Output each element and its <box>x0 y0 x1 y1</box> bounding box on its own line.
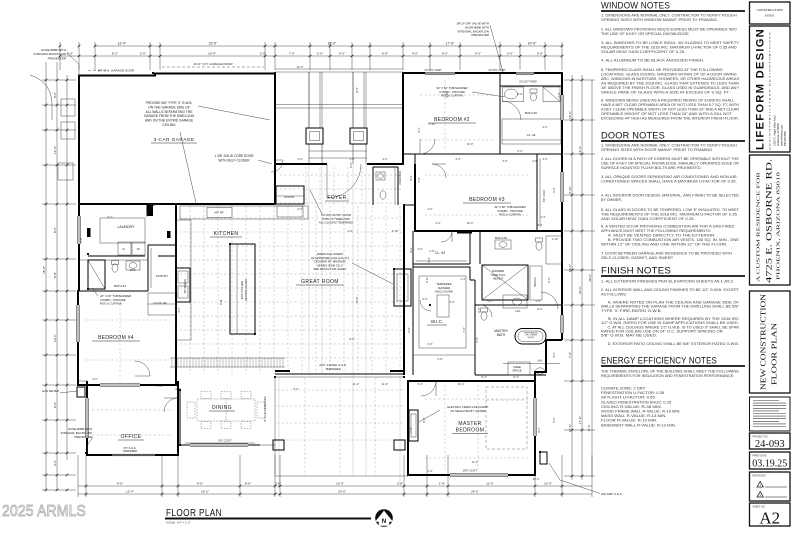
svg-text:2'0"x3'0" FIXED: 2'0"x3'0" FIXED <box>519 81 537 84</box>
window bedroom2 north <box>425 72 455 75</box>
svg-text:USE OF A KEY OR SPECIAL KNOWLE: USE OF A KEY OR SPECIAL KNOWLEDGE. MANUA… <box>601 162 739 166</box>
closet cl2 <box>502 119 561 144</box>
svg-text:4'-6": 4'-6" <box>542 157 547 161</box>
dining south windows <box>185 442 255 444</box>
svg-text:2'-0": 2'-0" <box>275 482 281 486</box>
svg-text:4'-0": 4'-0" <box>455 157 460 161</box>
svg-text:7'-0": 7'-0" <box>289 52 295 56</box>
svg-text:PREVENTER: PREVENTER <box>471 33 489 37</box>
svg-text:5'-6": 5'-6" <box>537 52 543 56</box>
dimension lines bottom rows <box>78 455 592 497</box>
svg-text:ENERGY EFFICIENCY NOTES: ENERGY EFFICIENCY NOTES <box>601 356 717 367</box>
svg-text:9'-2": 9'-2" <box>537 427 541 432</box>
svg-text:9'-0": 9'-0" <box>409 175 413 180</box>
svg-text:A2: A2 <box>759 509 780 528</box>
bath3 shower tiled <box>482 265 528 300</box>
svg-text:3'-0": 3'-0" <box>502 159 507 163</box>
svg-text:LIFEFORM DESIGN: LIFEFORM DESIGN <box>755 28 767 150</box>
interior dims scatter <box>92 65 558 481</box>
knee space counter <box>508 362 530 375</box>
svg-text:1. ALL EXTERIOR FINISHES PER E: 1. ALL EXTERIOR FINISHES PER ELEVATIONS … <box>601 280 734 284</box>
svg-text:3'-0": 3'-0" <box>507 52 513 56</box>
svg-text:BASEMENT WALL R-VALUE: R-13 MI: BASEMENT WALL R-VALUE: R-13 MIN. <box>601 423 676 427</box>
svg-text:2'-10": 2'-10" <box>429 122 436 126</box>
svg-text:1'-6": 1'-6" <box>439 482 445 486</box>
bath3 bench <box>530 266 542 300</box>
wall garage outline <box>79 74 275 205</box>
svg-text:22'-0": 22'-0" <box>209 42 218 46</box>
svg-text:9'-6": 9'-6" <box>442 52 448 56</box>
svg-text:NEW CONSTRUCTION: NEW CONSTRUCTION <box>759 293 768 390</box>
svg-text:11'-6": 11'-6" <box>472 460 479 464</box>
svg-text:CL. #3: CL. #3 <box>435 251 445 255</box>
svg-text:THE REQUIREMENTS OF THE 2018 I: THE REQUIREMENTS OF THE 2018 IRC. MAXIMU… <box>601 213 737 217</box>
titleblock sheet no box <box>750 503 791 526</box>
window bedroom4 south <box>100 384 140 387</box>
wall bedroom2 block <box>403 73 562 340</box>
svg-text:COATS: COATS <box>284 195 294 199</box>
bedroom2 ceiling dashes <box>420 94 495 96</box>
svg-text:3. ALL WINDOWS TO BE LOW-E INS: 3. ALL WINDOWS TO BE LOW-E INSUL. W/ GLA… <box>601 41 740 45</box>
svg-text:4'-4": 4'-4" <box>435 221 440 225</box>
svg-text:TEMPERED: TEMPERED <box>123 449 138 453</box>
svg-text:5'-0": 5'-0" <box>339 52 345 56</box>
wall left rooms west exterior <box>78 204 80 291</box>
ceiling grid dashed lines great room <box>180 206 403 476</box>
svg-text:8'-6": 8'-6" <box>245 482 251 486</box>
svg-text:KITCHEN: KITCHEN <box>214 231 239 237</box>
svg-text:2. ALL WINDOWS PROVIDING REQ'D: 2. ALL WINDOWS PROVIDING REQ'D EGRESS MU… <box>601 28 737 32</box>
svg-text:3'-0": 3'-0" <box>422 297 427 301</box>
svg-text:4'-6": 4'-6" <box>437 357 442 361</box>
svg-text:SOLAR HEAT GAIN COEFFICIENT OF: SOLAR HEAT GAIN COEFFICIENT OF 0.25. <box>601 50 685 54</box>
svg-text:REQUIREMENTS OF THE 2018 IRC.: REQUIREMENTS OF THE 2018 IRC. MAXIMUM U-… <box>601 46 737 50</box>
svg-text:4725 E. OSBORNE RD.: 4725 E. OSBORNE RD. <box>764 159 774 283</box>
svg-text:WINDOW NOTES: WINDOW NOTES <box>601 1 670 12</box>
svg-text:BATH: BATH <box>497 333 506 337</box>
svg-text:3'-0": 3'-0" <box>542 125 547 129</box>
wall master bedroom west + top <box>408 381 535 475</box>
patio outline <box>275 377 408 476</box>
bath2 door arc <box>502 101 521 120</box>
window master bedroom south <box>450 474 508 477</box>
svg-text:W.: W. <box>137 247 141 251</box>
svg-text:FLOOR PLAN: FLOOR PLAN <box>166 507 222 519</box>
svg-text:OPENING SIZES WITH DOOR MANUF.: OPENING SIZES WITH DOOR MANUF. PRIOR TO … <box>601 148 713 152</box>
linen closet <box>546 236 562 264</box>
dimension lines right column <box>564 75 595 480</box>
pantry partition <box>148 245 176 291</box>
dimension lines top rows <box>59 42 564 70</box>
window bedroom4 west <box>77 305 80 342</box>
svg-text:ROD & CURTAIN: ROD & CURTAIN <box>499 213 521 217</box>
svg-text:SINGLE PANE OF GLASS WITH A SI: SINGLE PANE OF GLASS WITH A SIZE IN EXCE… <box>601 91 730 95</box>
svg-text:FLOOR R-VALUE: R-19 MIN.: FLOOR R-VALUE: R-19 MIN. <box>601 419 657 423</box>
svg-text:BEDROOM #3: BEDROOM #3 <box>469 197 505 203</box>
revision triangle 2 <box>757 491 763 497</box>
svg-text:20'-0": 20'-0" <box>578 286 582 294</box>
svg-text:2'-6": 2'-6" <box>557 92 561 97</box>
master bed dashed <box>486 387 527 449</box>
svg-text:TEMPERED: TEMPERED <box>325 367 341 371</box>
bedroom3 coat closet <box>536 154 538 231</box>
svg-text:6'-1": 6'-1" <box>107 215 112 219</box>
svg-text:4'-0": 4'-0" <box>382 157 387 161</box>
svg-text:LOCATIONS: GLASS DOORS, WINDOW: LOCATIONS: GLASS DOORS, WINDOWS WITHIN 2… <box>601 73 737 77</box>
svg-text:17'-6": 17'-6" <box>578 416 582 424</box>
svg-text:LAV.: LAV. <box>515 309 521 313</box>
wall great room south sliding door <box>275 373 404 375</box>
wall black bar left laundry <box>87 228 91 237</box>
svg-text:REQUIREMENTS FOR INSULATION AN: REQUIREMENTS FOR INSULATION AND FENESTRA… <box>601 374 734 378</box>
svg-text:D E S I G N T H A T L I S: D E S I G N T H A T L I S T E N S . D E … <box>769 29 772 150</box>
svg-text:3'-0": 3'-0" <box>449 300 454 304</box>
svg-text:LAUNDRY: LAUNDRY <box>117 225 135 229</box>
svg-text:2'-0": 2'-0" <box>140 52 146 56</box>
svg-text:5'-8": 5'-8" <box>407 327 411 332</box>
entry door leaf+arc <box>326 164 328 198</box>
freestanding tub <box>515 329 546 345</box>
svg-text:16'-0" O.H. GARAGE DOOR: 16'-0" O.H. GARAGE DOOR <box>193 62 233 66</box>
svg-text:3'-2": 3'-2" <box>552 352 556 357</box>
svg-text:5. TEMPERED GLASS SHALL BE PRO: 5. TEMPERED GLASS SHALL BE PROVIDED AT T… <box>601 68 723 72</box>
svg-text:3'-0": 3'-0" <box>53 460 57 466</box>
bath3 toilet <box>536 242 542 250</box>
wall right side lower <box>408 340 562 475</box>
svg-text:6'-10": 6'-10" <box>568 186 572 194</box>
svg-text:3'0"x5'0" CSMT: 3'0"x5'0" CSMT <box>488 69 506 72</box>
svg-text:TYPE 'X' FIRE-RATED G.W.B.: TYPE 'X' FIRE-RATED G.W.B. <box>601 309 662 313</box>
svg-text:DINING: DINING <box>212 405 232 411</box>
svg-text:3'0"x5'0" CSMT: 3'0"x5'0" CSMT <box>424 69 442 72</box>
wall left rooms / kitchen divider <box>175 204 177 385</box>
svg-text:5/8" G.W.B. MAY BE USED.: 5/8" G.W.B. MAY BE USED. <box>601 334 657 338</box>
svg-text:6. A VENTED DOOR PROVIDING COM: 6. A VENTED DOOR PROVIDING COMBUSTION AI… <box>601 225 735 229</box>
svg-text:THE THERMAL ENVELOPE OF THE BU: THE THERMAL ENVELOPE OF THE BUILDING SHA… <box>601 370 739 374</box>
bath4 corner shower <box>88 260 105 289</box>
closet island <box>437 295 449 317</box>
door bedroom2 <box>420 139 435 154</box>
wc toilet <box>380 191 386 199</box>
svg-text:2025 ARMLS: 2025 ARMLS <box>2 503 86 520</box>
wall bath3 block <box>413 231 480 305</box>
interior dim vertical scatter <box>79 87 591 432</box>
svg-text:3'-6": 3'-6" <box>445 92 449 97</box>
bath2 tub <box>503 87 524 102</box>
office south sliding glass door <box>112 454 155 456</box>
svg-text:49'-6": 49'-6" <box>588 274 592 282</box>
svg-text:3'-6": 3'-6" <box>297 157 302 161</box>
svg-text:17'-6": 17'-6" <box>446 42 455 46</box>
svg-text:7'-6": 7'-6" <box>568 352 572 358</box>
svg-text:ON THE GARAGE SIDE OF: ON THE GARAGE SIDE OF <box>148 105 190 109</box>
svg-text:1'-10": 1'-10" <box>552 237 559 241</box>
svg-text:6'-0": 6'-0" <box>547 277 551 282</box>
window bath2 north <box>516 72 534 75</box>
svg-text:16'-0": 16'-0" <box>53 334 57 342</box>
svg-text:THE USE OF A KEY OR SPECIAL KN: THE USE OF A KEY OR SPECIAL KNOWLEDGE. <box>601 32 690 36</box>
svg-text:4'8" RF: 4'8" RF <box>214 211 224 215</box>
svg-text:SKYLIGHT U-FACTOR: 0.55: SKYLIGHT U-FACTOR: 0.55 <box>601 396 655 400</box>
svg-text:CONSTRUCTION: CONSTRUCTION <box>757 8 784 12</box>
svg-text:PREVENTER: PREVENTER <box>48 56 67 60</box>
svg-text:9'0" O.H. GARAGE DOOR: 9'0" O.H. GARAGE DOOR <box>98 69 135 73</box>
svg-text:5'-0": 5'-0" <box>293 387 298 391</box>
junction dots scatter <box>77 72 563 476</box>
entry walk lines <box>308 144 310 164</box>
porch column right <box>350 128 367 144</box>
svg-text:8'-0": 8'-0" <box>117 482 123 486</box>
svg-text:PRINT DATE: PRINT DATE <box>753 455 767 458</box>
svg-text:4'-4": 4'-4" <box>460 277 465 281</box>
door master bath <box>480 305 492 317</box>
svg-text:BEDROOM #2: BEDROOM #2 <box>434 117 470 123</box>
svg-text:12'-4": 12'-4" <box>126 490 134 494</box>
svg-text:6'-0": 6'-0" <box>382 52 388 56</box>
svg-text:HAVE A NET CLEAR OPENABLE AREA: HAVE A NET CLEAR OPENABLE AREA OF NOT LE… <box>601 103 739 107</box>
svg-text:AND ON THE ENTIRE GARAGE: AND ON THE ENTIRE GARAGE <box>145 119 194 123</box>
svg-text:3'-2": 3'-2" <box>177 307 181 312</box>
wall foyer front <box>275 163 403 165</box>
svg-text:W.I.C.: W.I.C. <box>431 319 444 324</box>
door office <box>164 398 178 412</box>
svg-text:6'-0": 6'-0" <box>349 162 353 167</box>
svg-text:ALL WALLS SEPARATING THE: ALL WALLS SEPARATING THE <box>146 110 194 114</box>
closet cl3 <box>413 233 470 264</box>
svg-text:11'-6": 11'-6" <box>486 482 494 486</box>
porch beam lines <box>275 104 403 106</box>
svg-text:5'-8": 5'-8" <box>53 272 57 278</box>
bath2 shower <box>543 87 560 102</box>
svg-text:555-555-5555: 555-555-5555 <box>784 130 787 146</box>
svg-text:6'0" COAT: 6'0" COAT <box>542 190 546 202</box>
porch column left <box>306 128 323 144</box>
svg-text:FOYER: FOYER <box>327 195 346 201</box>
svg-text:CEILING: CEILING <box>162 123 176 127</box>
wc lav <box>376 172 385 180</box>
svg-text:LAV.: LAV. <box>537 359 543 363</box>
svg-text:4'-0": 4'-0" <box>487 299 492 303</box>
svg-text:10'-6": 10'-6" <box>528 42 537 46</box>
svg-text:COUNTER: COUNTER <box>398 171 402 184</box>
svg-text:BEDROOM #4: BEDROOM #4 <box>98 335 134 341</box>
wall great room east <box>403 205 405 375</box>
svg-text:OPENING SIZES WITH WINDOW MANU: OPENING SIZES WITH WINDOW MANUF. PRIOR T… <box>601 18 718 22</box>
bedroom4 ceiling dashes <box>85 319 170 321</box>
svg-text:24'-6": 24'-6" <box>471 490 479 494</box>
svg-text:ROD & CURTAIN: ROD & CURTAIN <box>441 94 463 98</box>
door master <box>421 381 436 396</box>
svg-text:BATH #2: BATH #2 <box>525 111 537 115</box>
bath2 north partition <box>500 85 562 87</box>
dining table dashed <box>197 399 255 421</box>
svg-text:GARAGE FROM THE DWELLING: GARAGE FROM THE DWELLING <box>144 114 195 118</box>
svg-text:2. ALL DOORS IN A PATH OF EGRE: 2. ALL DOORS IN A PATH OF EGRESS MUST BE… <box>601 157 740 161</box>
svg-text:HEIGHT: HEIGHT <box>493 277 504 281</box>
svg-text:12'-0": 12'-0" <box>297 65 304 69</box>
titleblock construction issue box <box>750 2 791 24</box>
svg-text:2'-0": 2'-0" <box>397 482 403 486</box>
svg-text:PREVENTER: PREVENTER <box>74 435 92 439</box>
door laundry <box>147 204 160 217</box>
svg-text:2'-0": 2'-0" <box>297 207 302 211</box>
laundry counter <box>100 218 145 243</box>
electric fireplace <box>409 410 418 441</box>
svg-text:2'-8": 2'-8" <box>532 159 537 163</box>
svg-text:A NET CLEAR OPENABLE WIDTH OF: A NET CLEAR OPENABLE WIDTH OF NOT LESS T… <box>601 108 739 112</box>
svg-text:2. ALL INTERIOR WALL AND CEILI: 2. ALL INTERIOR WALL AND CEILING FINISHE… <box>601 288 740 292</box>
master bath door arc <box>541 292 558 309</box>
svg-text:BATH #3: BATH #3 <box>495 236 507 240</box>
bath2 toilet <box>531 93 537 101</box>
svg-text:1'-4": 1'-4" <box>427 469 432 473</box>
svg-text:4'-4": 4'-4" <box>540 215 545 219</box>
window master bath east <box>561 315 564 333</box>
master lav <box>536 368 545 374</box>
svg-text:8'-0": 8'-0" <box>477 307 481 312</box>
titleblock lifeform design box <box>750 26 791 152</box>
svg-text:11'-6": 11'-6" <box>382 382 389 386</box>
svg-text:MASTER: MASTER <box>458 421 481 427</box>
svg-text:17'-6": 17'-6" <box>568 424 572 432</box>
wall dining <box>180 390 260 445</box>
structural grid extension lines <box>308 72 310 128</box>
svg-text:REVISIONS: REVISIONS <box>753 475 766 478</box>
svg-text:AS FOLLOWS:: AS FOLLOWS: <box>601 293 627 297</box>
bath4 lav <box>126 261 140 270</box>
svg-text:D.W.: D.W. <box>219 299 223 305</box>
wall foyer/wc block <box>373 167 398 205</box>
svg-text:6. WINDOWS BEING USED AS A REQ: 6. WINDOWS BEING USED AS A REQUIRED MEAN… <box>601 99 734 103</box>
patio column right <box>394 440 405 450</box>
svg-text:7. DOOR BETWEEN GARAGE AND RES: 7. DOOR BETWEEN GARAGE AND RESIDENCE TO … <box>601 252 733 256</box>
svg-text:SELF-CLOSER, GASKET, AND SWEEP: SELF-CLOSER, GASKET, AND SWEEP. <box>601 256 674 260</box>
svg-text:1'-0": 1'-0" <box>347 229 352 233</box>
svg-text:8' S.L.D. TEMPERED: 8' S.L.D. TEMPERED <box>263 396 267 421</box>
kitchen counters top <box>180 206 308 219</box>
dimension lines left column <box>42 62 76 491</box>
master bath walls <box>475 305 562 375</box>
svg-text:15'-0": 15'-0" <box>568 111 572 119</box>
svg-text:4. ALL INTERIOR DOOR DESIGN, M: 4. ALL INTERIOR DOOR DESIGN, MATERIAL, A… <box>601 194 739 198</box>
window bedroom3 east <box>561 172 564 202</box>
svg-text:EXCEEDING 44" HIGH AS MEASURED: EXCEEDING 44" HIGH AS MEASURED FROM THE … <box>601 117 739 121</box>
svg-text:4. ALL ALUMINUM TO BE BLACK AN: 4. ALL ALUMINUM TO BE BLACK ANODIZED FIN… <box>601 59 704 63</box>
svg-text:03.19.25: 03.19.25 <box>752 459 787 470</box>
svg-text:B. PROVIDE TWO COMBUSTION AIR: B. PROVIDE TWO COMBUSTION AIR VENTS, 100… <box>601 238 740 242</box>
titleblock print date box <box>750 452 791 469</box>
svg-text:8'-0": 8'-0" <box>349 337 354 341</box>
window bedroom2 east <box>561 95 564 120</box>
svg-text:N: N <box>382 518 387 525</box>
svg-text:5'-0": 5'-0" <box>409 247 413 252</box>
kitchen nook hatch band <box>172 358 283 367</box>
svg-text:3'-10": 3'-10" <box>392 229 399 233</box>
svg-text:23'-0": 23'-0" <box>338 490 346 494</box>
svg-text:10'-0": 10'-0" <box>467 142 474 146</box>
svg-text:18'-0": 18'-0" <box>208 52 216 56</box>
svg-text:24-093: 24-093 <box>755 439 785 450</box>
svg-text:SELECT: SELECT <box>528 337 536 339</box>
door garage-to-house <box>271 160 283 172</box>
svg-text:FLOOR PLAN: FLOOR PLAN <box>770 322 779 385</box>
bedroom3/hall partition <box>404 204 415 206</box>
svg-text:5'-0": 5'-0" <box>552 187 556 192</box>
svg-text:4'-6": 4'-6" <box>417 247 422 251</box>
svg-text:ALL GLAZING TEMPERED: ALL GLAZING TEMPERED <box>319 221 353 225</box>
svg-text:FENESTRATION U-FACTOR: 0.35: FENESTRATION U-FACTOR: 0.35 <box>601 391 664 395</box>
door wic <box>420 300 431 311</box>
svg-text:12'-4": 12'-4" <box>118 42 127 46</box>
wall front porch lines <box>275 68 403 70</box>
svg-text:GAS METER: GAS METER <box>42 389 59 393</box>
svg-text:19'-0": 19'-0" <box>336 482 344 486</box>
bath4 toilet <box>112 264 118 272</box>
svg-text:5'-4": 5'-4" <box>481 375 486 379</box>
door bedroom4 <box>135 361 150 376</box>
svg-text:3'-0": 3'-0" <box>427 342 432 346</box>
svg-text:CLOS. #4: CLOS. #4 <box>153 301 167 305</box>
svg-text:10'0" COVT.: 10'0" COVT. <box>462 469 477 473</box>
bedroom3 ceiling dashes <box>425 174 530 176</box>
svg-text:4'-6": 4'-6" <box>427 207 432 211</box>
svg-text:3'-8": 3'-8" <box>417 177 421 182</box>
svg-text:2'-0": 2'-0" <box>317 52 323 56</box>
svg-text:CL. #2: CL. #2 <box>527 133 536 137</box>
door bedroom3 <box>432 164 446 178</box>
svg-text:1. DIMENSIONS ARE NOMINAL ONLY: 1. DIMENSIONS ARE NOMINAL ONLY. CONTRACT… <box>601 14 737 18</box>
svg-text:GLAZED FENESTRATION SHGC: 0.25: GLAZED FENESTRATION SHGC: 0.25 <box>601 400 671 404</box>
svg-text:FINISH NOTES: FINISH NOTES <box>601 266 671 277</box>
north arrow <box>375 509 393 527</box>
svg-text:WOOD FRAME WALL R-VALUE: R-19: WOOD FRAME WALL R-VALUE: R-19 MIN. <box>601 410 681 414</box>
svg-text:AS REQUIRED BY THE 2018 IRC. G: AS REQUIRED BY THE 2018 IRC. GLASS THAT … <box>601 82 739 86</box>
svg-text:12'-4": 12'-4" <box>53 146 57 154</box>
wic shelves <box>419 276 466 348</box>
svg-text:4'-6": 4'-6" <box>79 237 83 242</box>
svg-text:5. ALL GLASS IN DOORS TO BE TE: 5. ALL GLASS IN DOORS TO BE TEMPERED, LO… <box>601 208 740 212</box>
kitchen island <box>230 244 255 334</box>
svg-text:4'-0": 4'-0" <box>412 52 418 56</box>
svg-text:5'-0": 5'-0" <box>552 417 556 422</box>
svg-text:AND SOLAR HEAT GAIN COEFFICIEN: AND SOLAR HEAT GAIN COEFFICIENT OF 0.25. <box>601 217 695 221</box>
svg-text:SEE DETAIL THIS SHEET: SEE DETAIL THIS SHEET <box>313 267 346 271</box>
svg-text:5'-0": 5'-0" <box>475 52 481 56</box>
window office west <box>86 398 89 438</box>
svg-text:BY OWNER.: BY OWNER. <box>601 198 622 202</box>
kitchen appliance wall <box>176 220 191 340</box>
window dining south <box>190 444 248 447</box>
titleblock custom residence box <box>750 155 791 285</box>
svg-text:9'10" KITCHEN: 9'10" KITCHEN <box>240 281 244 300</box>
foyer ceiling grid <box>280 167 402 205</box>
svg-text:ROD & CURTAIN: ROD & CURTAIN <box>100 302 122 306</box>
svg-text:D. EXTERIOR PATIO CEILING SHAL: D. EXTERIOR PATIO CEILING SHALL BE 5/8" … <box>601 342 739 346</box>
door bath3 <box>441 231 452 242</box>
gas meter <box>77 387 85 397</box>
svg-text:3. ALL OPAQUE DOORS SEPARATING: 3. ALL OPAQUE DOORS SEPARATING AIR CONDI… <box>601 175 737 179</box>
svg-text:17'-6": 17'-6" <box>355 297 359 304</box>
svg-text:PANTRY: PANTRY <box>156 274 168 278</box>
svg-text:8'-0": 8'-0" <box>355 87 359 92</box>
svg-text:6'-2": 6'-2" <box>517 149 522 153</box>
wall black bar pantry corner <box>167 231 171 238</box>
svg-text:11'-2": 11'-2" <box>353 382 360 386</box>
svg-text:WITH SELF-CLOSER: WITH SELF-CLOSER <box>218 158 250 162</box>
laundry partitions <box>88 255 145 257</box>
svg-text:9'-6": 9'-6" <box>53 402 57 408</box>
black wall bar bath3 <box>457 230 472 234</box>
